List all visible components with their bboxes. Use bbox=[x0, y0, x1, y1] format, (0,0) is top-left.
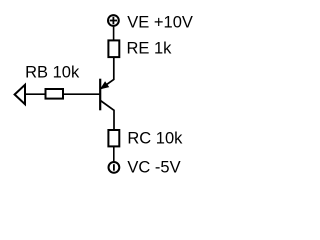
terminal VC (-) bbox=[109, 162, 120, 173]
wire RB to base bbox=[63, 93, 99, 95]
wire RE to emitter + transistor Q1 emitter lead bbox=[101, 58, 114, 89]
svg-text:RB 10k: RB 10k bbox=[25, 64, 80, 82]
resistor RC bbox=[108, 130, 119, 146]
svg-text:VC -5V: VC -5V bbox=[127, 159, 180, 177]
terminal VE (+) bbox=[108, 15, 119, 26]
resistor RE bbox=[108, 40, 119, 57]
resistor RB bbox=[46, 89, 64, 99]
transistor Q1 emitter arrow bbox=[101, 82, 109, 89]
wire RC to VC bbox=[113, 147, 115, 162]
transistor Q1 collector lead + wire to RC bbox=[100, 101, 114, 131]
transistor Q1 base bar bbox=[99, 79, 101, 111]
input terminal triangle bbox=[15, 85, 25, 104]
svg-text:VE +10V: VE +10V bbox=[127, 13, 193, 31]
wire input to RB bbox=[25, 93, 46, 95]
wire VE to RE bbox=[113, 27, 115, 41]
svg-text:RE 1k: RE 1k bbox=[127, 39, 173, 57]
svg-text:RC 10k: RC 10k bbox=[127, 130, 183, 148]
